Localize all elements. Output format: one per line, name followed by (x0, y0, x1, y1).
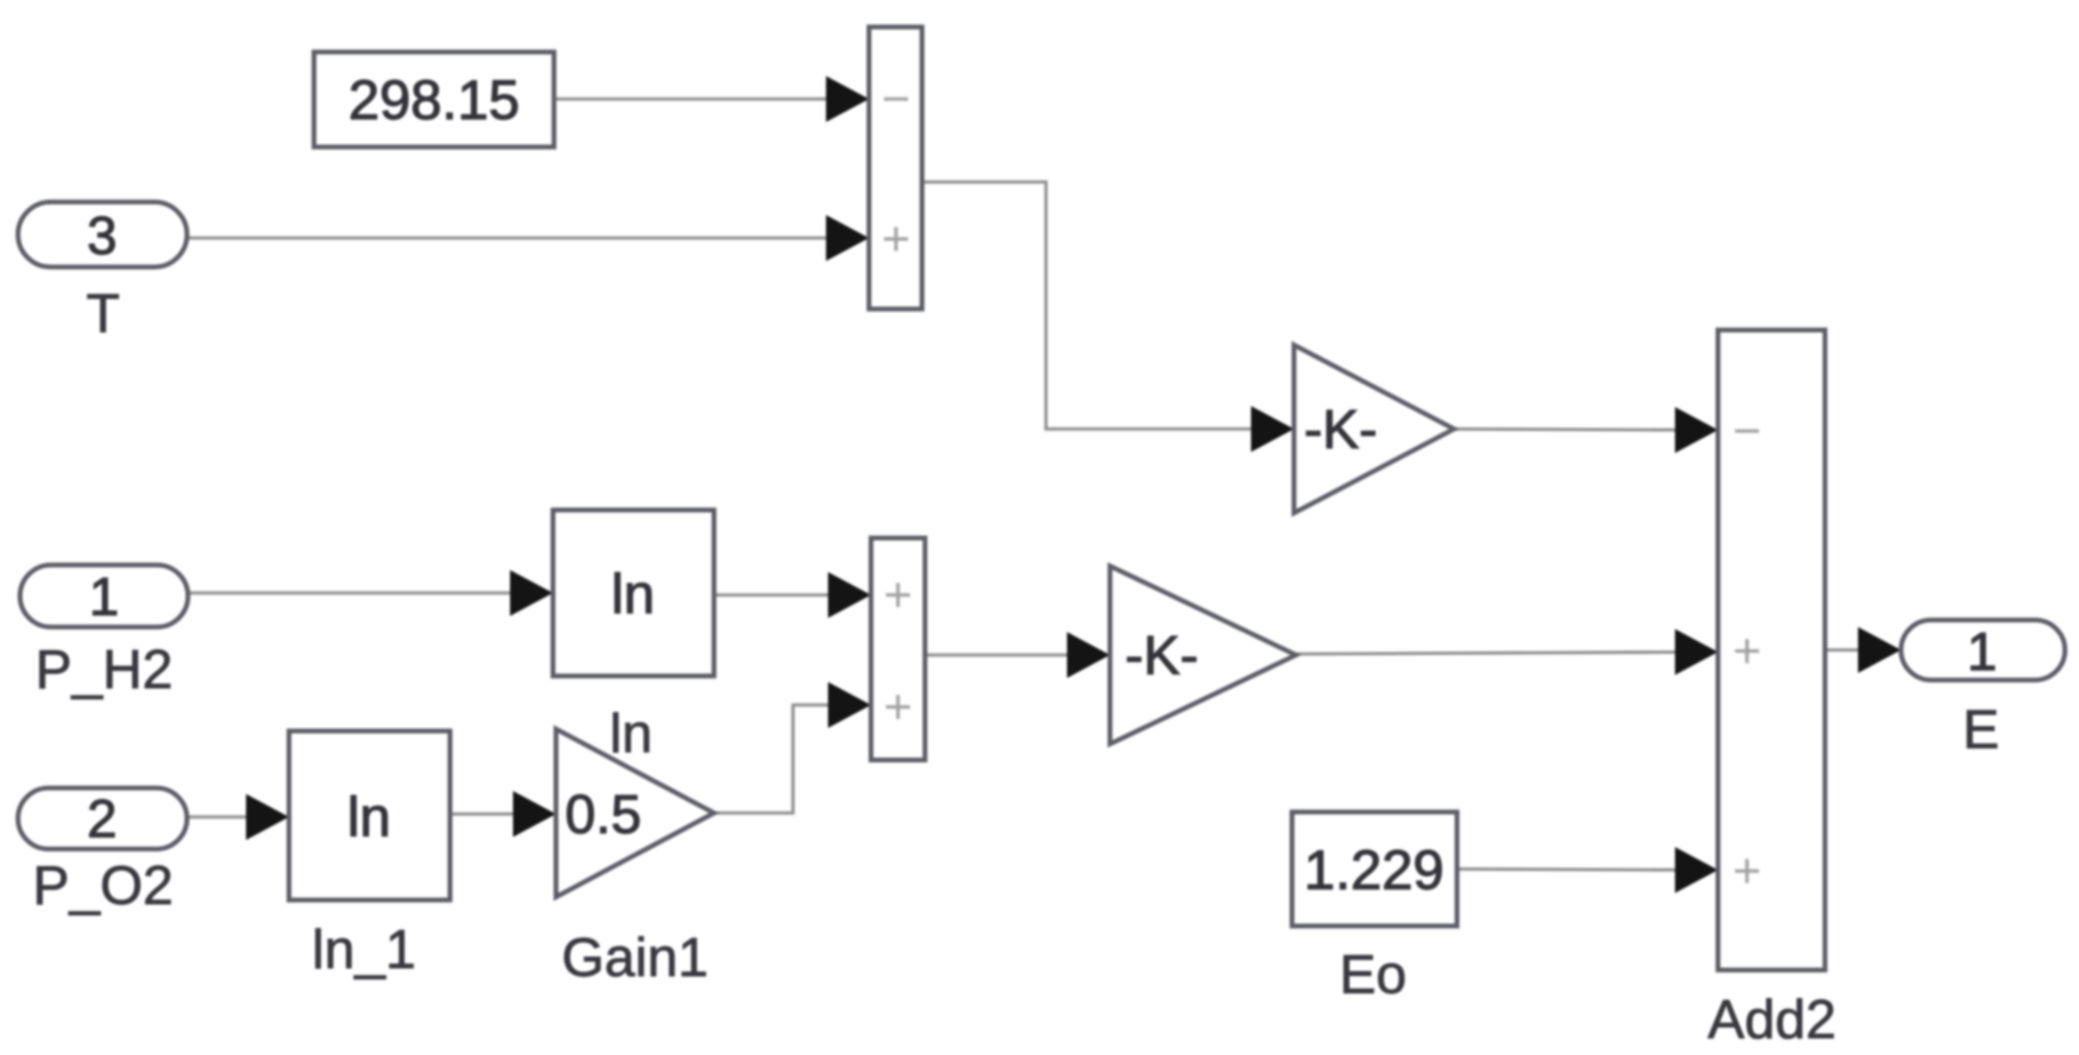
svg-text:-K-: -K- (1125, 624, 1198, 686)
svg-text:298.15: 298.15 (348, 68, 519, 131)
svg-text:Gain1: Gain1 (562, 926, 709, 988)
svg-text:1.229: 1.229 (1304, 838, 1444, 901)
svg-text:-K-: -K- (1304, 398, 1377, 460)
svg-text:ln: ln (611, 562, 655, 625)
svg-text:0.5: 0.5 (565, 783, 641, 845)
svg-text:T: T (86, 282, 120, 344)
svg-text:ln: ln (347, 785, 391, 848)
svg-text:ln: ln (610, 702, 653, 764)
svg-text:Add2: Add2 (1708, 988, 1836, 1050)
svg-text:1: 1 (1967, 622, 1997, 682)
svg-text:3: 3 (87, 206, 117, 266)
svg-text:ln_1: ln_1 (312, 918, 416, 980)
svg-text:E: E (1963, 698, 2000, 760)
svg-text:Eo: Eo (1339, 943, 1406, 1005)
svg-text:2: 2 (87, 789, 117, 849)
svg-text:P_O2: P_O2 (33, 854, 174, 916)
svg-text:1: 1 (89, 567, 119, 627)
svg-text:P_H2: P_H2 (35, 638, 173, 700)
